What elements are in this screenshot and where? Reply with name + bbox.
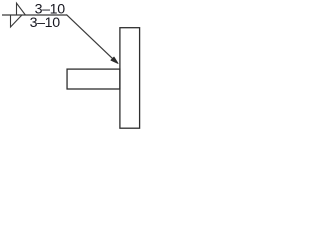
leader arrowhead: [111, 57, 118, 64]
horizontal plate of T-joint: [67, 69, 120, 89]
fillet weld symbol other side (triangle below line, staggered): [11, 15, 22, 27]
svg-text:3–10: 3–10: [30, 15, 61, 31]
reference line: [2, 14, 67, 16]
vertical plate of T-joint: [120, 28, 140, 129]
fillet weld symbol arrow side (triangle above line): [17, 3, 26, 15]
leader line: [66, 15, 114, 60]
